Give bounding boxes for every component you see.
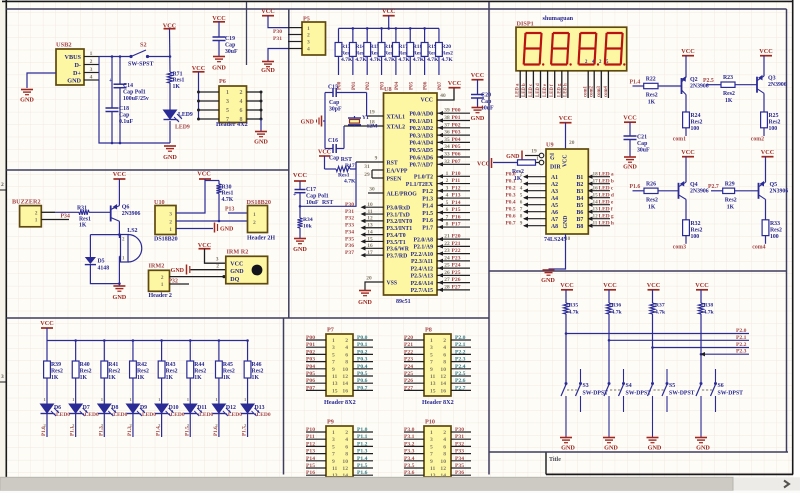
svg-text:P3.0/RxD: P3.0/RxD: [387, 206, 411, 212]
sheet bottom edge (title block area): [546, 473, 793, 475]
svg-text:R34: R34: [303, 217, 313, 223]
svg-text:7: 7: [430, 360, 433, 366]
svg-text:R44: R44: [194, 362, 204, 368]
wire usb top rail: [99, 55, 130, 58]
svg-text:P2.6/A14: P2.6/A14: [411, 281, 433, 287]
wire pullup col 6 top: [424, 28, 426, 42]
svg-text:8: 8: [345, 360, 348, 366]
svg-text:15: 15: [332, 388, 338, 394]
header P9 right net labels: [357, 427, 368, 476]
switch S2: [128, 50, 153, 68]
svg-text:14: 14: [440, 381, 446, 387]
wire R34 to gnd: [299, 228, 301, 238]
svg-text:P13: P13: [225, 207, 234, 213]
wire D11 down: [189, 414, 191, 438]
svg-text:30uF: 30uF: [225, 49, 238, 55]
diode D6: [41, 397, 60, 428]
wire tap P2.2: [653, 347, 750, 349]
svg-text:Cap: Cap: [481, 99, 491, 105]
power VCC above C19: [212, 15, 225, 22]
svg-text:2: 2: [1, 182, 4, 188]
capacitor C14: [109, 78, 149, 102]
crystal Y1: [348, 115, 378, 130]
svg-text:LED d: LED d: [599, 193, 614, 199]
resistor R26: [644, 181, 658, 210]
ground under U9: [541, 270, 555, 284]
svg-text:P0.2/AD2: P0.2/AD2: [409, 126, 433, 132]
mcu U8 pin 26 P2.5: [411, 270, 470, 280]
svg-text:6: 6: [345, 352, 348, 358]
wire RST node to U8: [300, 162, 356, 206]
header P7 body: [326, 334, 353, 396]
header P9 right pins: [342, 430, 373, 479]
svg-text:13: 13: [332, 381, 338, 387]
resistor R46: [244, 361, 263, 381]
header P8 left net labels: [404, 335, 413, 391]
svg-text:P16: P16: [306, 470, 315, 476]
svg-text:4.7K: 4.7K: [398, 57, 410, 63]
svg-text:15: 15: [430, 388, 436, 394]
junction arrow P2.3 tap: [700, 352, 705, 356]
svg-text:P10: P10: [452, 171, 461, 177]
wire led col 1 top: [46, 341, 48, 362]
svg-text:GND: GND: [506, 154, 520, 160]
ground under speaker: [113, 286, 127, 301]
svg-text:VCC: VCC: [261, 8, 274, 15]
svg-text:37: 37: [444, 122, 450, 128]
svg-text:A5: A5: [551, 203, 558, 209]
svg-text:VCC: VCC: [559, 115, 572, 122]
svg-text:GND: GND: [113, 294, 127, 301]
net label P2.5: [703, 78, 714, 84]
resistor R40: [72, 361, 91, 381]
svg-text:D9: D9: [140, 405, 147, 411]
wire D5 loop top: [90, 233, 120, 236]
svg-text:2N3906: 2N3906: [770, 188, 789, 194]
svg-text:Res2: Res2: [646, 93, 658, 99]
ground under switch S3: [560, 438, 575, 452]
buffer U9 VCC text (rotated): [563, 154, 569, 167]
resistor R25: [761, 112, 781, 132]
svg-text:P25: P25: [404, 371, 413, 377]
svg-text:17: 17: [367, 250, 373, 256]
svg-text:S3: S3: [583, 383, 589, 389]
svg-text:1: 1: [35, 218, 38, 224]
svg-text:1K: 1K: [137, 375, 145, 381]
bottom scrollbar chevron: [784, 481, 789, 488]
svg-text:1: 1: [307, 26, 310, 32]
svg-text:Cap Pol1: Cap Pol1: [123, 90, 146, 96]
switch S4 labels: [626, 383, 652, 397]
diode D7 labels: [83, 405, 99, 418]
svg-text:Title: Title: [549, 457, 561, 463]
net label P05 (rotated, pullup): [408, 81, 414, 90]
wire R45 to LED: [218, 378, 220, 404]
resistor R18: [407, 43, 425, 64]
svg-text:R29: R29: [725, 181, 735, 187]
svg-text:U9: U9: [546, 142, 554, 149]
svg-text:14: 14: [367, 229, 373, 235]
wire D6 down: [46, 414, 48, 438]
svg-text:D10: D10: [169, 405, 179, 411]
svg-text:1K: 1K: [80, 375, 88, 381]
svg-text:P0.7: P0.7: [357, 385, 368, 391]
wire pullup col 5 bottom: [409, 56, 411, 75]
mcu U8 label: [396, 299, 411, 305]
wire C19 to gnd: [218, 41, 220, 57]
svg-text:VCC: VCC: [695, 282, 708, 289]
diode D12: [212, 397, 231, 428]
svg-text:2: 2: [345, 338, 348, 344]
svg-text:VCC: VCC: [420, 97, 433, 103]
svg-text:A8: A8: [551, 224, 558, 230]
svg-text:P2.0/A8: P2.0/A8: [414, 237, 434, 243]
svg-text:33: 33: [444, 152, 450, 158]
display com pin com4: [604, 71, 609, 98]
transistor Q2: [681, 76, 686, 94]
mcu U8 pin 20 VSS: [365, 276, 397, 291]
svg-text:14: 14: [342, 381, 348, 387]
power VCC above C21: [623, 115, 636, 123]
svg-text:P06: P06: [423, 81, 429, 90]
svg-text:ALE/PROG: ALE/PROG: [387, 191, 418, 197]
wire xtal1 right column: [366, 93, 368, 117]
header P8 label: [422, 399, 454, 406]
svg-text:10uF: 10uF: [481, 106, 494, 112]
svg-text:P1.6: P1.6: [357, 470, 368, 476]
mcu U8 pin 23 P2.2: [411, 248, 470, 258]
svg-text:C17: C17: [306, 187, 316, 193]
diode D11: [184, 397, 203, 428]
svg-text:3: 3: [520, 179, 523, 185]
wire pullup col 4 top: [395, 28, 397, 42]
header DS18B20 label: [247, 236, 275, 242]
wire vcc to led bus: [46, 328, 48, 341]
power VCC above U10 area: [197, 171, 211, 180]
svg-text:P23: P23: [404, 357, 413, 363]
svg-text:LED h: LED h: [599, 221, 614, 227]
mcu U8 pin 16 P3.6: [345, 243, 410, 253]
svg-text:A2: A2: [551, 182, 558, 188]
svg-text:P1.2: P1.2: [98, 426, 104, 436]
svg-text:P24: P24: [404, 364, 413, 370]
svg-text:4.7K: 4.7K: [427, 57, 439, 63]
svg-text:R45: R45: [223, 362, 233, 368]
junctions led bus: [74, 339, 249, 342]
svg-text:2: 2: [307, 33, 310, 39]
svg-text:Header 2H: Header 2H: [247, 236, 275, 242]
svg-text:VCC: VCC: [192, 65, 205, 72]
svg-text:34: 34: [444, 144, 450, 150]
svg-text:Cap: Cap: [119, 113, 129, 119]
svg-text:13: 13: [430, 381, 436, 387]
buzzer BUZZER2 pin 1: [35, 218, 69, 224]
svg-text:17: 17: [593, 179, 599, 185]
svg-text:P10: P10: [306, 427, 315, 433]
diode D6 labels: [54, 405, 70, 418]
svg-text:1K: 1K: [223, 375, 231, 381]
display segment pin LED e: [543, 71, 548, 98]
svg-text:10: 10: [367, 202, 373, 208]
connector USB2 pin 3: [84, 67, 99, 73]
svg-text:P1.0: P1.0: [357, 427, 368, 433]
wire Q4 collector down: [685, 199, 687, 219]
power VCC switch col 4: [695, 282, 708, 290]
display segment pin LED g: [557, 71, 562, 98]
title block box: [546, 452, 561, 474]
svg-text:R43: R43: [166, 362, 176, 368]
switch S3: [561, 369, 582, 437]
svg-text:19: 19: [369, 110, 375, 116]
resistor R29: [723, 181, 737, 210]
mcu U8 designator: [384, 86, 392, 93]
svg-text:B7: B7: [577, 217, 584, 223]
header DS18B20 designator: [247, 199, 271, 206]
svg-text:R35: R35: [569, 303, 579, 309]
header P9 left net labels: [306, 427, 315, 476]
wire vcc to C21: [629, 122, 631, 136]
wire pullup col 7 top: [438, 28, 440, 42]
svg-text:R37: R37: [655, 303, 665, 309]
transistor Q5: [759, 181, 766, 199]
sheet left edge: [5, 0, 7, 477]
ground under U8 VSS: [358, 291, 372, 307]
wire pullup col 5 top: [409, 28, 411, 42]
ground under P6: [254, 132, 268, 146]
svg-text:2: 2: [446, 178, 449, 184]
sheet top edge: [2, 0, 793, 2]
svg-text:2: 2: [161, 275, 164, 281]
svg-text:9: 9: [430, 459, 433, 465]
svg-text:P1.4: P1.4: [630, 79, 641, 85]
mcu U8 pin 13 P3.3: [345, 223, 412, 233]
svg-text:LED e: LED e: [599, 200, 614, 206]
svg-text:1K: 1K: [725, 98, 733, 104]
display segment pin LED d: [536, 71, 541, 98]
power VCC above Q2: [681, 48, 694, 56]
svg-text:100: 100: [691, 126, 700, 132]
svg-text:16: 16: [342, 388, 348, 394]
mcu U8 pin 39 P0.0: [409, 108, 470, 118]
svg-text:VCC: VCC: [318, 150, 331, 156]
power VCC led bus: [40, 320, 53, 328]
ground under C19: [212, 57, 226, 72]
svg-text:P3.1: P3.1: [404, 434, 415, 440]
header P8 left pins: [404, 338, 436, 394]
svg-text:P3.3: P3.3: [404, 449, 415, 455]
svg-text:1: 1: [536, 156, 539, 162]
svg-text:P2.0: P2.0: [455, 335, 466, 341]
net label P14 (rotated): [156, 426, 162, 436]
svg-text:S2: S2: [140, 42, 147, 49]
svg-text:C18: C18: [119, 106, 129, 112]
wire pullup col 0 top: [338, 28, 340, 42]
svg-text:Res1: Res1: [222, 191, 234, 197]
svg-text:4: 4: [307, 47, 310, 53]
mcu U8 pin 19 XTAL1: [367, 110, 406, 121]
svg-text:30uF: 30uF: [637, 148, 650, 154]
svg-text:6: 6: [443, 352, 446, 358]
svg-text:com2: com2: [590, 85, 595, 97]
svg-text:R42: R42: [137, 362, 147, 368]
svg-text:VSS: VSS: [387, 280, 398, 286]
svg-text:10: 10: [342, 367, 348, 373]
svg-text:VCC: VCC: [293, 172, 308, 179]
svg-text:R46: R46: [252, 362, 262, 368]
svg-text:USB2: USB2: [56, 42, 72, 49]
wire D8 down: [103, 414, 105, 438]
wire U10 pin2 to header: [176, 220, 248, 222]
svg-text:GND: GND: [541, 277, 555, 284]
wire tap P2.1: [609, 339, 749, 341]
capacitor C19: [213, 36, 239, 55]
net label P06 (rotated, pullup): [423, 81, 429, 90]
switch S5: [648, 369, 669, 437]
svg-text:25: 25: [444, 263, 450, 269]
mcu U8 pin 36 P0.3: [409, 130, 470, 140]
power VCC label at R21: [477, 158, 492, 168]
svg-text:24: 24: [444, 255, 450, 261]
wire R35 down: [565, 314, 568, 382]
svg-text:P0.1: P0.1: [357, 342, 368, 348]
resistor R13: [335, 43, 353, 64]
svg-text:R36: R36: [612, 303, 622, 309]
resistor R42: [130, 361, 149, 381]
buffer U9 pin B8: [577, 221, 614, 230]
svg-text:4148: 4148: [98, 266, 110, 272]
connector USB2 designator: [56, 42, 72, 49]
svg-text:P3.5/T1: P3.5/T1: [387, 240, 406, 246]
svg-text:1K: 1K: [108, 375, 116, 381]
wire led col 7 top: [218, 341, 220, 362]
svg-text:36: 36: [444, 130, 450, 136]
svg-text:10: 10: [440, 459, 446, 465]
net label P13: [225, 207, 234, 213]
mcu U8 pin 11 P3.1: [345, 209, 410, 219]
svg-text:P9: P9: [327, 419, 334, 426]
svg-text:Res2: Res2: [691, 227, 703, 233]
wire vcc to C19: [218, 22, 220, 38]
wire R42 to LED: [132, 378, 134, 404]
net label P11 (rotated): [70, 426, 76, 436]
mcu U8 pin 1 P1.0: [414, 171, 470, 181]
svg-text:R40: R40: [80, 362, 90, 368]
svg-text:P01: P01: [452, 115, 461, 121]
mcu U8 pin 9 RST: [356, 156, 398, 167]
svg-text:P2.7/A15: P2.7/A15: [411, 288, 433, 294]
svg-text:Q2: Q2: [690, 77, 698, 83]
resistor R21: [493, 160, 536, 182]
svg-text:R25: R25: [769, 113, 779, 119]
section divider top horizontal: [6, 8, 786, 10]
speaker LS2: [121, 235, 142, 263]
mcu U8 pin 31 EA/VPP: [364, 164, 408, 174]
svg-text:Res2: Res2: [108, 369, 120, 375]
net label P2.7: [708, 184, 719, 190]
svg-text:P21: P21: [404, 342, 413, 348]
buffer U9 pin A4: [506, 193, 559, 202]
wire C17 to R34: [299, 193, 302, 218]
svg-text:P02: P02: [365, 81, 371, 90]
bottom scrollbar track: [0, 477, 800, 490]
svg-text:com4: com4: [752, 244, 765, 250]
svg-text:P0.2: P0.2: [357, 349, 368, 355]
net label P04 (rotated, pullup): [394, 81, 400, 90]
svg-text:P1.0/T2: P1.0/T2: [414, 175, 433, 181]
svg-text:VCC: VCC: [448, 80, 461, 87]
svg-text:LED0: LED0: [199, 412, 213, 418]
resistor R35: [563, 303, 579, 316]
section divider vertical x283 (LED/header split): [283, 318, 285, 475]
buffer U9 pin B4: [577, 193, 614, 202]
net label P2.1 (switch): [736, 335, 747, 341]
svg-text:Res2: Res2: [223, 369, 235, 375]
mcu U8 pin 27 P2.6: [411, 277, 470, 287]
svg-text:P2.2: P2.2: [455, 349, 466, 355]
resistor R36: [606, 303, 622, 316]
power VCC above R71: [163, 22, 176, 29]
svg-text:P16: P16: [452, 214, 461, 220]
svg-text:B3: B3: [577, 189, 584, 195]
svg-text:4: 4: [345, 437, 348, 443]
svg-text:20: 20: [366, 276, 372, 282]
svg-text:10: 10: [440, 367, 446, 373]
svg-text:1K: 1K: [51, 375, 59, 381]
header P7 right net labels: [357, 335, 368, 391]
power VCC above P6: [192, 65, 205, 72]
junctions pullup bus: [352, 27, 426, 30]
svg-text:P1.2: P1.2: [357, 441, 368, 447]
section divider horizontal y170 (below USB section): [6, 169, 289, 171]
svg-text:4: 4: [446, 193, 449, 199]
svg-text:G: G: [550, 156, 555, 162]
svg-text:P34: P34: [345, 229, 354, 235]
diode D10 labels: [169, 405, 185, 418]
svg-text:B8: B8: [577, 224, 584, 230]
svg-text:A1: A1: [551, 175, 558, 181]
header P6 designator: [219, 78, 226, 85]
svg-text:S4: S4: [626, 383, 632, 389]
svg-text:P00: P00: [306, 335, 315, 341]
diode D7: [69, 397, 88, 428]
svg-text:LED0: LED0: [257, 412, 271, 418]
svg-text:P3.2: P3.2: [404, 441, 415, 447]
wire vcc to C17: [299, 181, 301, 190]
display digit 2: [551, 33, 572, 66]
sheet zone tick y382: [0, 374, 6, 382]
wire buzzer to R31: [55, 211, 79, 213]
svg-text:1: 1: [446, 171, 449, 177]
resistor R15: [364, 43, 382, 64]
buffer U9 pin B5: [577, 200, 614, 209]
svg-text:VCC: VCC: [382, 8, 395, 15]
svg-text:4.7K: 4.7K: [355, 57, 367, 63]
header P7 designator: [327, 327, 334, 334]
svg-text:35: 35: [444, 137, 450, 143]
header P6 right pins 2,4,6,8: [240, 90, 263, 123]
svg-text:LS2: LS2: [127, 228, 137, 234]
svg-text:VCC: VCC: [477, 162, 490, 168]
mcu U8 pin 38 P0.1: [409, 115, 470, 125]
svg-text:Cap: Cap: [637, 141, 647, 147]
svg-text:4.7K: 4.7K: [341, 57, 353, 63]
svg-text:19: 19: [531, 149, 537, 155]
resistor R20: [436, 43, 454, 64]
buffer U9 pin A5: [506, 200, 559, 209]
transistor Q3: [757, 75, 764, 93]
display com pin com1: [584, 71, 589, 98]
svg-text:18: 18: [593, 172, 599, 178]
